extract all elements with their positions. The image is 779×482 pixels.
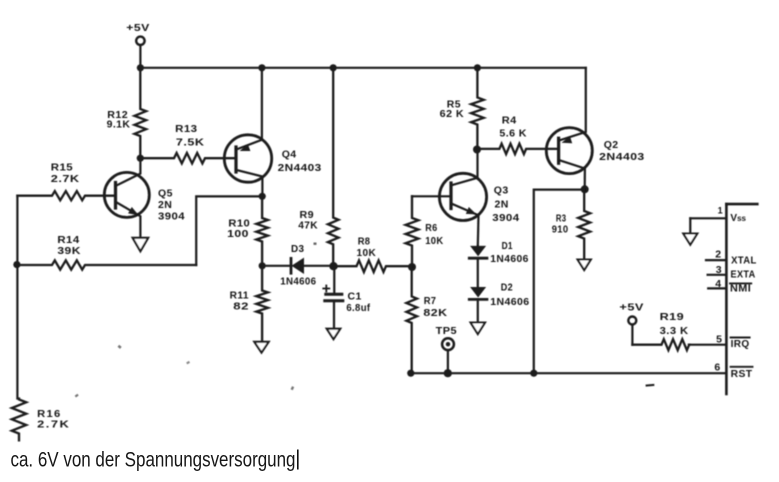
svg-text:6.8uf: 6.8uf xyxy=(346,302,370,314)
transistor Q5 xyxy=(104,158,185,238)
resistor R13 xyxy=(140,123,236,164)
svg-text:R14: R14 xyxy=(57,234,79,246)
resistor R8 xyxy=(334,235,413,272)
resistor R7 xyxy=(406,267,447,373)
svg-text:2N4403: 2N4403 xyxy=(278,162,322,174)
svg-text:3: 3 xyxy=(716,264,722,276)
svg-text:4: 4 xyxy=(715,278,721,290)
svg-text:R4: R4 xyxy=(502,114,517,126)
node G (R5/R4/Q3 collector) xyxy=(473,146,481,154)
resistor R15 xyxy=(17,161,115,200)
transistor Q3 xyxy=(412,150,520,246)
transistor Q2 xyxy=(546,68,644,190)
svg-text:2.7K: 2.7K xyxy=(37,420,70,431)
svg-text:R13: R13 xyxy=(175,123,197,135)
scan speck dash xyxy=(647,384,654,387)
svg-text:Q4: Q4 xyxy=(282,148,297,160)
ground D2 xyxy=(471,323,485,335)
svg-text:1N4606: 1N4606 xyxy=(490,253,528,265)
svg-text:D2: D2 xyxy=(501,282,513,294)
svg-text:TP5: TP5 xyxy=(436,325,457,337)
svg-text:6: 6 xyxy=(714,362,720,374)
text cursor xyxy=(297,450,299,470)
svg-text:XTAL: XTAL xyxy=(731,255,757,266)
svg-text:10K: 10K xyxy=(357,247,377,259)
node rail-R5 xyxy=(474,64,481,71)
svg-text:2: 2 xyxy=(715,248,721,260)
svg-text:ca. 6V von der Spannungsversor: ca. 6V von der Spannungsversorgung xyxy=(11,447,296,471)
svg-text:R16: R16 xyxy=(37,409,62,420)
node rail-Q4 xyxy=(258,64,265,71)
svg-text:82: 82 xyxy=(233,301,249,313)
test point TP5 xyxy=(436,325,457,373)
svg-text:IRQ: IRQ xyxy=(731,339,750,350)
scan speck quote xyxy=(291,386,295,390)
scan speck comma xyxy=(118,345,122,349)
caption text xyxy=(11,447,296,471)
capacitor C1 xyxy=(323,266,370,329)
node rail-R12 xyxy=(137,64,144,71)
resistor R10 xyxy=(227,196,268,265)
resistor R5 xyxy=(440,68,484,150)
svg-text:R19: R19 xyxy=(660,311,685,323)
resistor R11 xyxy=(230,266,268,342)
svg-text:+5V: +5V xyxy=(619,302,644,314)
pin 6 RST xyxy=(714,362,752,380)
svg-text:39K: 39K xyxy=(57,245,81,257)
wire top +5V rail xyxy=(140,67,585,69)
svg-text:5: 5 xyxy=(716,334,722,346)
svg-text:3904: 3904 xyxy=(158,211,185,223)
svg-text:R3: R3 xyxy=(556,214,567,225)
node rail-TP5 xyxy=(444,369,452,377)
node F (R8/R6/R7) xyxy=(408,263,416,271)
pin 2 XTAL xyxy=(706,248,757,266)
diode D1 xyxy=(469,240,528,287)
svg-text:3904: 3904 xyxy=(492,212,519,224)
svg-text:1N4606: 1N4606 xyxy=(490,296,529,308)
svg-text:Q2: Q2 xyxy=(604,139,619,151)
svg-text:EXTA: EXTA xyxy=(731,270,756,281)
resistor R16 xyxy=(12,399,71,441)
resistor R19 xyxy=(632,311,689,350)
IC edge line xyxy=(726,204,757,394)
scan speck dot xyxy=(314,243,317,245)
+5V supply terminal xyxy=(126,22,150,68)
svg-text:7.5K: 7.5K xyxy=(176,136,205,148)
node D (R10/R11/D3) xyxy=(259,262,266,269)
svg-text:100: 100 xyxy=(227,228,249,240)
svg-text:910: 910 xyxy=(552,225,569,236)
resistor R12 xyxy=(107,68,147,158)
ground C1 xyxy=(327,329,341,340)
pin 1 Vss xyxy=(690,206,746,234)
resistor R14 xyxy=(17,234,196,270)
svg-text:R6: R6 xyxy=(425,222,437,234)
svg-text:RST: RST xyxy=(731,369,753,380)
svg-text:R15: R15 xyxy=(51,161,73,173)
svg-text:9.1K: 9.1K xyxy=(107,120,131,131)
wire node H to bottom rail xyxy=(534,190,585,374)
ground Q5 emitter xyxy=(133,238,149,252)
node rail-Q2 xyxy=(530,370,537,377)
svg-text:C1: C1 xyxy=(348,291,362,303)
transistor Q4 xyxy=(224,68,321,197)
svg-text:R7: R7 xyxy=(424,295,437,307)
pin 4 NMI xyxy=(708,278,751,295)
ground Vss xyxy=(683,234,697,245)
ground R11 xyxy=(254,342,268,353)
scan speck tick xyxy=(75,394,79,398)
svg-text:2N4403: 2N4403 xyxy=(599,151,645,163)
node E (D3/R9/C1/R8) xyxy=(329,262,337,270)
ground R3 xyxy=(578,260,591,271)
wire left rail xyxy=(16,196,18,399)
svg-text:2.7K: 2.7K xyxy=(51,173,80,185)
diode D3 xyxy=(262,243,333,287)
svg-text:NMI: NMI xyxy=(730,284,751,295)
node left-R14 xyxy=(13,261,20,268)
+5V terminal at R19 xyxy=(619,302,644,345)
node C (Q4 collector/R10) xyxy=(259,193,266,200)
svg-text:82K: 82K xyxy=(423,307,447,319)
wire R14 to node C xyxy=(196,196,262,265)
resistor R3 xyxy=(552,189,591,259)
wire bottom rail (RST net) xyxy=(411,372,727,374)
node H (Q2 collector/R3) xyxy=(581,185,589,193)
resistor R6 xyxy=(406,196,444,267)
svg-text:5.6 K: 5.6 K xyxy=(499,128,527,140)
svg-text:3.3 K: 3.3 K xyxy=(660,325,689,337)
node B1 (R12/R13/Q5 collector) xyxy=(137,155,144,162)
svg-text:62 K: 62 K xyxy=(440,109,465,120)
svg-text:D3: D3 xyxy=(291,243,304,255)
resistor R4 xyxy=(477,114,559,154)
svg-text:1N4606: 1N4606 xyxy=(280,275,316,287)
scan speck tick2 xyxy=(186,361,190,365)
svg-text:2N: 2N xyxy=(495,198,509,210)
node rail-R7 xyxy=(407,370,414,377)
pin 5 IRQ xyxy=(689,334,750,351)
node rail-R9 xyxy=(330,64,337,71)
svg-text:47K: 47K xyxy=(298,220,318,232)
svg-text:D1: D1 xyxy=(502,240,513,252)
pin 3 EXTAL xyxy=(708,264,756,280)
svg-text:+5V: +5V xyxy=(126,22,150,34)
svg-text:10K: 10K xyxy=(425,235,443,247)
svg-text:Vss: Vss xyxy=(730,213,746,224)
resistor R9 xyxy=(298,68,338,266)
svg-text:R8: R8 xyxy=(358,235,371,247)
diode D2 xyxy=(469,282,529,323)
svg-text:Q5: Q5 xyxy=(158,187,173,199)
svg-text:2N: 2N xyxy=(158,199,172,211)
svg-text:1: 1 xyxy=(718,206,723,216)
svg-text:Q3: Q3 xyxy=(494,184,509,196)
